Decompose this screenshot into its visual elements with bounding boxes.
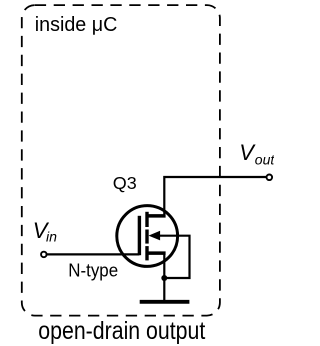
Q3 drain stub — [147, 214, 166, 218]
Q3 channel segment drain — [145, 212, 148, 227]
wire source to ground — [163, 253, 165, 300]
Q3 channel segment source — [145, 246, 148, 260]
svg-text:out: out — [255, 152, 274, 168]
terminal Vin — [41, 252, 47, 258]
Q3 gate bar — [138, 216, 141, 255]
dashed microcontroller boundary box — [22, 5, 220, 316]
svg-text:inside μC: inside μC — [35, 14, 118, 36]
Q3 body arrow — [149, 231, 161, 241]
transistor Q3 (N-MOSFET) body circle — [117, 206, 178, 267]
svg-text:open-drain output: open-drain output — [38, 318, 205, 345]
terminal Vout — [267, 175, 273, 181]
svg-text:V: V — [239, 140, 256, 165]
ground — [140, 300, 190, 304]
wire drain to Vout — [164, 177, 266, 216]
wire body to source — [158, 236, 190, 278]
svg-text:in: in — [46, 228, 57, 244]
Q3 channel segment body — [145, 230, 148, 244]
wire gate (Vin to gate) — [47, 253, 140, 255]
svg-text:N-type: N-type — [68, 261, 118, 281]
Q3 source stub — [147, 251, 166, 255]
svg-text:Q3: Q3 — [113, 173, 137, 193]
junction source-body — [161, 275, 167, 281]
